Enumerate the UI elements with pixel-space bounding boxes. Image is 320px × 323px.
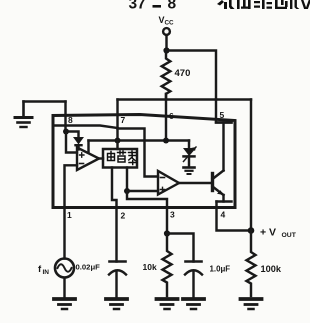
wire emitter bottom run	[217, 200, 232, 202]
resistor 100k	[247, 231, 256, 297]
ground (zener, internal)	[184, 168, 195, 175]
wire right rail to Vout	[250, 100, 252, 231]
wire pin8	[64, 102, 66, 131]
svg-text:f: f	[38, 264, 42, 275]
svg-text:8: 8	[168, 0, 177, 13]
node pin7 junction	[115, 138, 121, 144]
wire A extension to op2 input	[118, 129, 159, 177]
charge pump box	[103, 149, 137, 168]
wire collector top run	[216, 121, 232, 123]
svg-text:7: 7	[121, 115, 126, 125]
wire pin5 riser	[216, 100, 232, 123]
node pin6 junction	[163, 138, 169, 144]
svg-text:5: 5	[220, 110, 225, 120]
svg-text:3: 3	[170, 210, 175, 220]
ground (10k)	[157, 299, 178, 309]
wire to pin 3	[127, 191, 167, 234]
op-amp U1A (input comparator)	[77, 148, 99, 171]
IC box U1	[53, 115, 235, 208]
wire top rail	[118, 98, 252, 100]
wire to op2 + input	[127, 190, 158, 192]
wire pin3 node to 1.0uF	[167, 234, 194, 262]
zener Z1	[184, 141, 197, 168]
wire op1 output	[99, 157, 103, 159]
caption (clipped figure title at top)	[129, 0, 312, 13]
svg-text:OUT: OUT	[282, 232, 297, 239]
ground (source)	[54, 299, 75, 309]
resistor R 470	[162, 51, 171, 100]
wire charge pump top stub	[116, 141, 118, 150]
label + Vout	[260, 227, 297, 240]
ground (100k)	[241, 299, 262, 309]
node pin8 junction	[63, 129, 69, 135]
caption chinese fragments	[217, 0, 311, 9]
svg-text:1: 1	[67, 210, 72, 220]
wire B (pin7/pin6 internal rail)	[89, 139, 190, 141]
op1 minus mark	[80, 163, 84, 165]
wire A from box edge	[53, 126, 118, 129]
svg-text:+ V: + V	[260, 227, 276, 239]
wire charge pump bottom-right stub	[126, 168, 128, 192]
svg-text:2: 2	[121, 211, 126, 221]
wire B left drop to op1	[87, 141, 89, 152]
diode D1 (input clamp, points down)	[66, 132, 83, 150]
svg-text:10k: 10k	[143, 262, 157, 272]
wire pin 1 input	[65, 165, 78, 258]
Vcc terminal circle	[163, 28, 170, 35]
wire pin 4 to Vout	[217, 202, 252, 231]
wire charge pump bottom-left / pin 2	[112, 168, 117, 262]
op2 plus mark	[160, 187, 164, 191]
capacitor 1.0uF	[185, 262, 202, 298]
wire ground top-left	[24, 100, 66, 102]
label charge pump (电荷泵)	[108, 151, 137, 165]
resistor 10k	[163, 234, 172, 297]
Vcc label	[159, 15, 175, 27]
svg-text:8: 8	[68, 115, 73, 125]
wire Vcc to node	[165, 35, 167, 48]
wire pin6 riser	[165, 94, 167, 141]
node charge pump output	[124, 188, 130, 194]
node Vout	[248, 227, 255, 234]
svg-text:470: 470	[175, 68, 191, 79]
ground top-left	[15, 102, 32, 128]
op-amp U1B	[158, 171, 179, 195]
source fIN (sine generator)	[55, 259, 74, 298]
svg-text:37: 37	[129, 0, 146, 13]
svg-text:0.02μF: 0.02μF	[76, 263, 101, 272]
ground (1.0uF)	[183, 299, 204, 309]
wire pin7 riser	[116, 100, 118, 141]
svg-text:CC: CC	[165, 20, 175, 27]
capacitor 0.02uF	[109, 262, 126, 298]
op1 plus mark	[80, 153, 84, 157]
op2 minus mark	[161, 177, 165, 179]
wire op1 + input from pin8	[66, 132, 77, 153]
svg-text:1.0μF: 1.0μF	[210, 265, 231, 274]
wire op2 output to base	[179, 182, 211, 184]
label fIN	[38, 264, 49, 276]
svg-text:4: 4	[221, 210, 226, 220]
node pin3 junction	[164, 230, 170, 236]
wire node to pin5 branch	[167, 51, 217, 100]
svg-text:6: 6	[169, 111, 174, 121]
ground (0.02uF)	[106, 299, 127, 309]
node Vcc junction	[163, 47, 169, 53]
svg-text:IN: IN	[43, 269, 50, 276]
svg-text:100k: 100k	[261, 264, 282, 274]
transistor Q1 (NPN)	[213, 123, 224, 202]
